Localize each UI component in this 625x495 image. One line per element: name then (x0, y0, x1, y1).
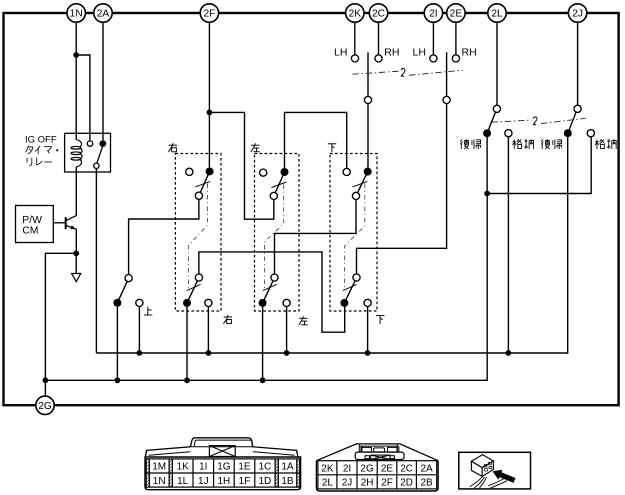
contact 2L fukki closed (483, 129, 491, 137)
wire LEFT-lower filled to bus (262, 306, 264, 380)
common DOWN-upper (352, 192, 359, 199)
common LEFT-upper (270, 192, 277, 199)
relay contact open (to 1N) (87, 141, 92, 146)
wire emitter down (75, 229, 77, 253)
svg-text:1E: 1E (238, 462, 251, 473)
contact 2L kakunou (505, 130, 512, 137)
svg-text:IG OFF: IG OFF (25, 134, 57, 145)
closed contacts (filled) (113, 129, 571, 307)
wire RIGHT-upper common to UP switch pivot (129, 199, 199, 275)
svg-text:2A: 2A (97, 9, 110, 20)
label DOWN (bottom) (376, 316, 385, 324)
connector location icon legend (459, 452, 531, 489)
contact 2J kakunou (587, 130, 594, 137)
terminal 2F (200, 4, 218, 22)
svg-text:1G: 1G (217, 462, 231, 473)
label kakunou (2L) (512, 139, 533, 149)
mechanical link 2L/2J (492, 118, 586, 123)
outer frame / terminal bus (4, 13, 619, 405)
contact LEFT-upper open (260, 169, 267, 176)
svg-text:2E: 2E (381, 464, 394, 475)
svg-text:1F: 1F (239, 476, 251, 487)
pivot LEFT-lower (271, 274, 278, 281)
pivot RIGHT-lower (195, 274, 202, 281)
junction 2L fukki / 2J kakunou (484, 191, 490, 197)
wire 2F branch to LEFT-upper common (209, 112, 273, 219)
wire LEFT-upper contact to DOWN-upper open contact (285, 112, 347, 168)
relay contact arm (97, 147, 103, 163)
svg-text:2L: 2L (491, 9, 503, 20)
wire motor line A (y=353) up to 2J fukki contact (96, 137, 567, 353)
wire LEFT-lower open to motor line (286, 306, 288, 353)
svg-text:2F: 2F (203, 9, 215, 20)
svg-text:2I: 2I (429, 9, 438, 20)
terminal 2A (94, 4, 112, 22)
wire 2I/2E pole to DOWN-lower pivot (357, 103, 447, 274)
pivot DOWN-lower (353, 274, 360, 281)
wire 2A down to relay contact (102, 22, 104, 140)
block P/W CM (16, 206, 54, 243)
svg-text:2K: 2K (349, 9, 362, 20)
wire 2L junction to 2J kakunou contact (487, 136, 591, 193)
wire 2C stub (378, 22, 380, 55)
switch arm LEFT-upper (275, 172, 284, 193)
pivot UP (125, 275, 132, 282)
contact UP closed (113, 299, 121, 307)
wire mirror-select pole to DOWN-upper contact (367, 103, 369, 168)
svg-text:2I: 2I (343, 464, 351, 475)
switch arm RIGHT-lower (187, 281, 198, 303)
common RIGHT-upper (195, 192, 202, 199)
relay contact closed (to 2A) (99, 140, 106, 147)
junction DOWN contact / motor line (365, 350, 371, 356)
svg-text:2L: 2L (322, 478, 334, 489)
svg-text:1N: 1N (70, 9, 83, 20)
svg-text:1K: 1K (177, 462, 190, 473)
switch arm LEFT-lower (263, 281, 274, 303)
label RIGHT (top) (168, 143, 177, 152)
relay U1: IG OFF timer relay box (65, 133, 111, 172)
terminal 2G (36, 396, 54, 414)
junction 2G / ground bus (43, 377, 49, 383)
terminal 2J (568, 4, 586, 22)
svg-text:2K: 2K (321, 464, 334, 475)
contact DOWN-upper closed (364, 168, 372, 176)
svg-text:RH: RH (462, 47, 477, 59)
wire 2J down to pivot (577, 21, 579, 105)
junction emitter node (73, 250, 79, 256)
contact LEFT-upper closed (281, 168, 289, 176)
wire relay common down (95, 169, 97, 353)
contact DOWN-upper open (343, 168, 350, 175)
pivot 2J (574, 105, 581, 112)
wire bus to 2G (44, 380, 46, 396)
svg-text:2H: 2H (361, 478, 374, 489)
junction RIGHT contact / motor line (206, 350, 212, 356)
contact RIGHT-upper open (186, 168, 193, 175)
svg-text:1A: 1A (281, 462, 294, 473)
contact LEFT-lower open (283, 299, 290, 306)
wire ground bus (y=380) up to 2L junction (45, 194, 487, 381)
junction 1N branch (73, 52, 79, 58)
contact LEFT-lower closed (259, 299, 267, 307)
svg-text:2B: 2B (420, 478, 433, 489)
label LEFT (top) (251, 143, 260, 152)
wire node to ground (75, 253, 77, 273)
svg-text:1L: 1L (177, 476, 189, 487)
junction UP contact / motor line (137, 350, 143, 356)
pole joint LH/RH 1 (364, 96, 371, 103)
pole arm LH/RH switch 2 (446, 52, 448, 97)
svg-text:2J: 2J (572, 9, 583, 20)
svg-text:2D: 2D (400, 478, 413, 489)
wire RIGHT-lower pivot to DOWN-lower contact (199, 252, 345, 332)
dashed box RIGHT switch group (175, 154, 221, 312)
contact RIGHT-lower closed (183, 299, 191, 307)
junction 2F branch (207, 110, 213, 116)
terminal 2E (447, 4, 465, 22)
dashed box LEFT switch group (255, 154, 300, 312)
pivot 2L (493, 105, 500, 112)
svg-text:RH: RH (384, 47, 399, 59)
wire UP filled contact to bus (116, 306, 118, 380)
contact LH (2K) (351, 55, 358, 62)
wire 1N down to relay coil (75, 22, 77, 140)
svg-text:2J: 2J (342, 478, 353, 489)
mechanical link RIGHT box (187, 181, 210, 290)
svg-text:2G: 2G (38, 401, 52, 412)
label DOWN (top) (328, 144, 337, 152)
label fukki (2J) (541, 139, 562, 149)
svg-text:1D: 1D (259, 476, 272, 487)
mechanical link LH/RH (353, 70, 463, 75)
junction kakunou / motor line (506, 350, 512, 356)
connector 1 pinout diagram (145, 438, 301, 490)
label RIGHT (bottom) (223, 315, 232, 324)
svg-text:LH: LH (413, 47, 426, 59)
svg-text:1H: 1H (218, 476, 231, 487)
svg-text:2C: 2C (400, 464, 413, 475)
svg-text:CM: CM (22, 225, 38, 236)
wire 2E stub (455, 22, 457, 55)
mechanical link DOWN box (343, 181, 368, 290)
transistor Q1 (NPN) (53, 216, 76, 230)
svg-text:2A: 2A (420, 464, 433, 475)
label LEFT (bottom) (299, 316, 308, 325)
junction RIGHT / ground bus (184, 377, 190, 383)
terminal 2I (424, 4, 442, 22)
terminal 2L (488, 4, 506, 22)
terminal 2C (369, 4, 387, 22)
switch arm DOWN-upper (357, 172, 367, 194)
junction LEFT contact / motor line (284, 350, 290, 356)
wire 2L kakunou contact to motor line (507, 136, 509, 353)
relay common contact (94, 163, 99, 168)
switch arm 2J fukki (568, 112, 576, 133)
connector 2 pinout diagram (316, 444, 438, 491)
wire 2I stub (432, 22, 434, 55)
terminal 2K (346, 4, 364, 22)
wire emitter node to bus (45, 253, 76, 380)
contact DOWN-lower open (364, 299, 371, 306)
svg-text:2G: 2G (360, 464, 374, 475)
svg-text:1C: 1C (259, 462, 272, 473)
contact RIGHT-lower open (205, 299, 212, 306)
contact RH (2E) (452, 55, 459, 62)
wire coil to collector (75, 167, 77, 216)
contact 2J fukki closed (564, 129, 572, 137)
wire 1N branch to relay contact (76, 55, 90, 141)
relay coil L1 (71, 140, 82, 167)
contact RIGHT-upper closed (206, 167, 214, 175)
svg-text:1B: 1B (281, 476, 294, 487)
pole joint LH/RH 2 (443, 96, 450, 103)
svg-text:1I: 1I (199, 462, 207, 473)
svg-text:2F: 2F (381, 478, 393, 489)
wire 2L down to pivot (496, 21, 498, 105)
svg-text:2C: 2C (372, 9, 385, 20)
label fukki (2L) (460, 139, 481, 149)
open contacts (125, 55, 594, 307)
ground (72, 274, 81, 282)
svg-text:LH: LH (334, 47, 347, 59)
dashed box DOWN switch group (330, 154, 377, 312)
label kakunou (2J) (595, 139, 616, 149)
contact DOWN-lower closed (340, 299, 348, 307)
mechanical link LEFT box (263, 182, 287, 291)
wire DOWN-upper common to LEFT-lower pivot (275, 199, 357, 274)
label UP (144, 307, 153, 315)
wire 2K stub (354, 22, 356, 55)
wire RIGHT-lower open to motor line (207, 306, 209, 353)
switch arm RIGHT-upper (200, 171, 209, 192)
contact RH (2C) (375, 55, 382, 62)
pole arm LH/RH switch 1 (367, 52, 369, 97)
svg-text:1J: 1J (198, 476, 209, 487)
contact LH (2I) (430, 55, 437, 62)
switch arm UP (117, 281, 127, 303)
svg-text:2E: 2E (450, 9, 463, 20)
wire 2L fukki contact down (486, 137, 488, 194)
switch arm DOWN-lower (344, 281, 355, 303)
wire UP open contact to motor line (138, 306, 140, 353)
wire 2F down to RIGHT-upper switch (208, 22, 210, 168)
junction LEFT / ground bus (260, 377, 266, 383)
wire DOWN-lower open to motor line (367, 306, 369, 353)
svg-text:1N: 1N (153, 476, 166, 487)
contact UP open (136, 299, 143, 306)
svg-text:1M: 1M (152, 462, 166, 473)
wire RIGHT-lower filled to bus (186, 306, 188, 380)
terminal 1N (67, 4, 85, 22)
junction UP / ground bus (115, 377, 121, 383)
switch arm 2L fukki (487, 112, 496, 133)
